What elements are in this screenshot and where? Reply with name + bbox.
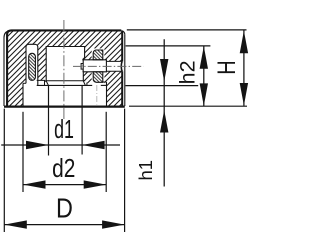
screw hole band outline (106, 61, 121, 71)
bowed wall line at screw exit (120, 61, 123, 71)
bottom edge (thick) (4, 105, 125, 107)
h1 dimension line (163, 39, 165, 186)
right corner arc (121, 31, 125, 35)
ext line d1 right (81, 86, 83, 155)
bore right wall (106, 82, 108, 106)
svg-text:D: D (56, 194, 73, 224)
tray slope left (46, 81, 48, 85)
ledge extension line (125, 85, 198, 87)
label h2 (176, 60, 200, 84)
upper cavity d1 (white) (46, 47, 84, 82)
ledge / bore ceiling left segment (37, 84, 92, 86)
label h1 (135, 160, 156, 181)
faint hole centerline (96, 85, 98, 105)
H dimension line (243, 30, 245, 105)
d1 left arrow (26, 141, 49, 149)
svg-text:d2: d2 (52, 154, 75, 182)
spring slot (white) (26, 44, 38, 84)
lower bore cavity d2 (white) (23, 83, 107, 106)
left outer thin contour with top curve (4, 31, 10, 106)
d2 dimension line (23, 184, 106, 186)
label D (56, 194, 73, 224)
D dimension line (4, 224, 124, 226)
label H (213, 60, 241, 74)
h1 upper arrow (down) (160, 59, 168, 82)
knob body wall cross-section hatching (7, 30, 122, 106)
screw axis centerline (73, 65, 144, 67)
rod foot outline (37, 80, 45, 85)
label d1 (54, 115, 74, 144)
body outline: top edge (thick) with rounded top-left fillet (7, 30, 121, 106)
h2 top arrow (up) (200, 46, 208, 68)
bore left wall (22, 83, 24, 106)
h2 top extension line (126, 45, 211, 47)
h2 bottom arrow (down) (200, 83, 208, 106)
svg-text:h2: h2 (176, 60, 200, 84)
rod foot (white) (35, 80, 45, 85)
D left arrow (4, 220, 27, 228)
ledge right segment (101, 84, 107, 86)
svg-text:d1: d1 (54, 115, 74, 144)
set screw body (white) (83, 60, 106, 72)
cavity bottom line (46, 80, 85, 82)
tray slope right (83, 81, 85, 86)
svg-text:h1: h1 (135, 160, 156, 181)
H bottom arrow (down) (240, 83, 248, 106)
ext line d2 left (22, 112, 24, 192)
label d2 (52, 154, 75, 182)
screw hole band through wall (white) (106, 61, 121, 71)
d2 left arrow (23, 180, 46, 188)
ext line d2 right (105, 112, 107, 192)
nut-to-wall line (103, 81, 107, 83)
h1 lower arrow (up) (160, 110, 168, 133)
d1 dimension line (1, 144, 120, 146)
H top arrow (up) (240, 31, 248, 54)
upper cavity outline (46, 47, 84, 82)
ext line d1 left (48, 86, 50, 156)
bottom extension line (129, 105, 247, 107)
spring rod (cross-hatched) (29, 53, 36, 80)
slot outline (26, 44, 38, 85)
right thick wall line (121, 31, 123, 107)
d2 right arrow (84, 180, 107, 188)
ext line D right (124, 109, 126, 232)
cavity tray strip (white) (46, 81, 85, 86)
wall line below screw (82, 72, 84, 81)
right outer thin contour (124, 34, 126, 106)
d1 right arrow (82, 141, 105, 149)
white gap band where screw hole crosses right wall (106, 61, 123, 71)
vertical hole notch under nut (white) (92, 82, 101, 86)
set screw outline (83, 60, 106, 72)
h2 dimension line (203, 46, 205, 106)
main vertical centerline (dash-dot gray) (63, 20, 65, 119)
nut insert upper lobe (92, 48, 105, 59)
ext line D left (3, 109, 5, 232)
svg-text:H: H (213, 60, 241, 74)
nut insert lower lobe (92, 72, 105, 84)
D right arrow (102, 220, 125, 228)
bore left wall top tick (23, 82, 26, 84)
small step at ledge (86, 83, 88, 86)
screw slot notch (81, 64, 83, 70)
top extension line (127, 29, 247, 31)
